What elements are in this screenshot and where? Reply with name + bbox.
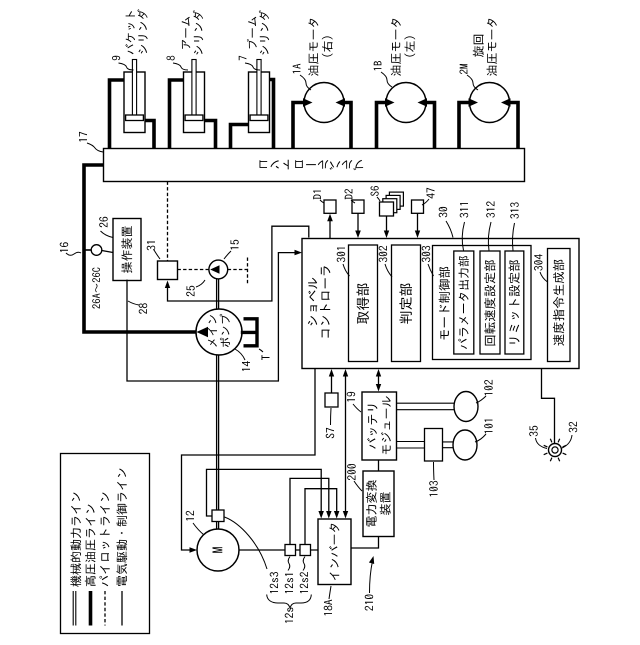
arm cylinder 8 body bbox=[184, 72, 205, 133]
high-pressure line to swing hydraulic motor 2M right port bbox=[510, 103, 519, 149]
leader for 15 bbox=[224, 251, 231, 259]
high-pressure line to bucket cylinder 9 rod side bbox=[145, 121, 154, 149]
leader for 2M bbox=[467, 75, 478, 90]
legend sample electric line bbox=[121, 591, 123, 626]
damper 103 box bbox=[425, 429, 443, 462]
leader for D1 bbox=[320, 200, 324, 203]
lever grip 102 bbox=[454, 392, 478, 422]
arrow into regulator 31 bbox=[165, 281, 170, 289]
arrow into travel hydraulic motor 1B (left) right port bbox=[418, 98, 428, 107]
high-pressure line to arm cylinder 8 head side bbox=[170, 80, 184, 149]
inverter label bbox=[329, 524, 339, 580]
leader for 25 bbox=[196, 280, 205, 287]
mechanical link battery to lever 102 bbox=[397, 403, 455, 410]
label 35 bbox=[529, 426, 538, 437]
inverter 18A box bbox=[318, 519, 351, 585]
leader for 101 bbox=[475, 434, 486, 442]
travel hydraulic motor 1A (right) circle bbox=[304, 83, 344, 123]
travel hydraulic motor 1B (left) circle bbox=[386, 83, 426, 123]
mechanical link battery to damper 103 bbox=[397, 442, 425, 449]
mechanical link damper to lever 101 bbox=[443, 442, 454, 448]
wire power converter to inverter bbox=[351, 537, 379, 549]
light 35 inner circle bbox=[552, 447, 558, 453]
sensor S6 stack box 4 bbox=[389, 192, 403, 206]
parameter output unit 311 box bbox=[454, 251, 474, 354]
label 16 bbox=[60, 242, 69, 252]
leader for 17 bbox=[87, 143, 103, 152]
label 47 bbox=[427, 188, 435, 199]
battery module label line1 bbox=[367, 405, 377, 449]
label 304 bbox=[534, 254, 543, 271]
leader for 1A bbox=[300, 75, 311, 90]
arrow from S6 into controller bbox=[384, 231, 389, 239]
arrow into swing hydraulic motor 2M left port bbox=[469, 98, 479, 107]
leader for 12 bbox=[193, 523, 204, 535]
leader for 12s2 bbox=[303, 557, 305, 571]
arrow 12s1 wire into inverter bbox=[326, 511, 332, 519]
arrow into travel hydraulic motor 1A (right) left port bbox=[303, 98, 313, 107]
high-pressure line to swing hydraulic motor 2M left port bbox=[459, 103, 470, 149]
arm cylinder 8 piston bbox=[185, 115, 203, 121]
electric motor 12 circle bbox=[197, 529, 239, 571]
leader for 47 bbox=[422, 199, 429, 205]
wire sensor 12s2 to inverter bbox=[305, 489, 337, 545]
leader for 301 bbox=[343, 264, 350, 276]
mode control unit label bbox=[439, 267, 450, 340]
leader for 303 bbox=[428, 264, 434, 276]
acquisition unit label bbox=[356, 284, 369, 324]
label 210 bbox=[365, 595, 374, 611]
leader for S6 bbox=[377, 197, 380, 201]
label 12s2 bbox=[300, 572, 309, 593]
arrow into controller (wire 28) bbox=[295, 250, 303, 256]
high-pressure line to boom cylinder 7 rod side bbox=[270, 80, 274, 149]
label 312 bbox=[486, 201, 495, 217]
label 303 bbox=[422, 246, 431, 262]
leader for 12s1 bbox=[288, 557, 290, 571]
arrow 12s3 wire into inverter bbox=[318, 511, 324, 519]
determination unit 302 box bbox=[392, 245, 421, 362]
arrow into travel hydraulic motor 1B (left) left port bbox=[385, 98, 395, 107]
legend sample mechanical line bbox=[73, 591, 76, 626]
mechanical shaft sensor to motor bbox=[217, 522, 219, 530]
main pump port triangle bbox=[197, 327, 209, 337]
arm cylinder 8 name line1 bbox=[182, 17, 191, 49]
boom cylinder 7 piston bbox=[250, 115, 268, 121]
boom cylinder 7 name line1 bbox=[247, 17, 257, 49]
legend sample pilot line bbox=[104, 591, 106, 626]
bucket cylinder 9 rod bbox=[132, 60, 136, 116]
pilot pump triangle bbox=[210, 265, 219, 273]
legend high pressure hydraulic line bbox=[85, 505, 96, 587]
pilot line (valve to regulator 31) bbox=[167, 182, 169, 262]
leader for 103 bbox=[433, 462, 436, 480]
leader curve for 12s3 bbox=[225, 517, 268, 569]
arrow into controller (inverter wire) bbox=[343, 369, 348, 377]
label 301 bbox=[337, 248, 346, 263]
sensor S6 stack box 3 bbox=[386, 195, 400, 209]
operating device 26 box bbox=[113, 219, 141, 281]
wire 28 operating device to controller bbox=[127, 253, 298, 381]
boom cylinder 7 name line2 bbox=[259, 10, 269, 54]
sensor S6 stack box 2 bbox=[383, 199, 397, 213]
high-pressure line to travel hydraulic motor 1B (left) right port bbox=[426, 103, 435, 149]
leader for 311 bbox=[462, 222, 464, 251]
input device D2 box bbox=[352, 200, 364, 213]
label 18A bbox=[324, 600, 333, 616]
leader for 312 bbox=[488, 222, 491, 251]
travel hydraulic motor 1A (right) name (右) bbox=[322, 36, 333, 56]
high-pressure line to boom cylinder 7 head side bbox=[231, 125, 249, 149]
swing hydraulic motor 2M circle bbox=[470, 83, 510, 123]
mode control unit 303 box bbox=[433, 246, 532, 360]
leader for 313 bbox=[513, 223, 515, 251]
label 103 bbox=[429, 481, 438, 496]
leader for 18A bbox=[329, 586, 331, 599]
arm cylinder 8 name line2 bbox=[193, 10, 203, 54]
main pump 14 circle bbox=[196, 309, 242, 355]
sensor 12s2 box bbox=[300, 545, 311, 556]
power conversion device 200 box bbox=[363, 471, 394, 537]
main pump label line2 bbox=[220, 314, 230, 347]
arrow into swing hydraulic motor 2M right port bbox=[501, 98, 511, 107]
high-pressure line 16 (pump to valve) bbox=[84, 165, 197, 332]
arrow into motor M bbox=[190, 547, 198, 553]
boom cylinder 7 body bbox=[249, 72, 270, 133]
mechanical shaft pilot pump to main pump bbox=[217, 279, 219, 311]
sensor 12s3 box bbox=[212, 510, 224, 522]
label 26A-26C bbox=[92, 268, 100, 309]
sensor 47 box bbox=[412, 200, 424, 213]
rotation speed setting unit 312 box bbox=[480, 251, 500, 354]
label 15 bbox=[231, 240, 239, 250]
leader for 304 bbox=[540, 272, 548, 282]
boom cylinder 7 rod bbox=[257, 60, 261, 116]
arrow into inverter (controller wire) bbox=[343, 511, 348, 519]
label 200 bbox=[347, 464, 356, 480]
legend electric drive/control line bbox=[116, 469, 127, 586]
leader for 102 bbox=[476, 396, 486, 403]
legend mechanical power line bbox=[70, 493, 81, 587]
arrow from D2 into controller bbox=[355, 231, 361, 239]
bucket cylinder 9 body bbox=[124, 72, 145, 133]
arrow into D1 bbox=[327, 214, 333, 222]
arrow into travel hydraulic motor 1A (right) right port bbox=[336, 98, 346, 107]
determination unit label bbox=[399, 284, 412, 324]
speed command generation unit label bbox=[553, 260, 564, 346]
legend box bbox=[61, 454, 150, 634]
label S6 bbox=[371, 186, 379, 196]
leader for D2 bbox=[351, 200, 355, 203]
leader for 210 bbox=[370, 561, 373, 593]
limit setting unit 313 box bbox=[505, 251, 524, 354]
sensor 12s1 box bbox=[285, 545, 296, 556]
label 7 bbox=[239, 56, 247, 60]
label 26 bbox=[99, 217, 108, 228]
label 311 bbox=[460, 203, 469, 218]
arrow 12s2 wire into inverter bbox=[334, 511, 340, 519]
brace for 12s group bbox=[267, 595, 312, 609]
wire 47 to controller bbox=[417, 213, 419, 234]
wire controller to motor M bbox=[182, 369, 316, 551]
label S7 bbox=[326, 428, 335, 438]
bucket cylinder 9 piston bbox=[126, 115, 144, 121]
wire battery to controller bbox=[378, 374, 380, 388]
pilot port circle 26A-26C bbox=[91, 245, 102, 256]
leader for 200 bbox=[354, 481, 362, 491]
label T bbox=[262, 355, 270, 360]
arrow for 210 pointing at DC bus bbox=[369, 556, 374, 564]
label D2 bbox=[345, 189, 353, 199]
controller name line1 bbox=[308, 278, 317, 326]
rotation speed setting unit label bbox=[484, 260, 495, 345]
light 35 rays bbox=[544, 439, 567, 462]
pilot line (pilot pump relief) bbox=[228, 269, 248, 271]
label 30 bbox=[439, 207, 448, 217]
wire D2 to controller bbox=[357, 213, 359, 234]
label 12s3 bbox=[270, 572, 279, 593]
leader for 28 bbox=[128, 301, 139, 305]
leader for 8 bbox=[173, 63, 188, 70]
controller name line2 bbox=[320, 266, 330, 337]
wire controller to D1 bbox=[329, 218, 331, 239]
leader for 30 bbox=[446, 221, 453, 238]
main pump label line1 bbox=[208, 315, 217, 347]
leader for S7 bbox=[330, 408, 333, 425]
label 19 bbox=[347, 392, 356, 402]
wire battery to power converter bbox=[378, 460, 380, 471]
control wire controller to regulator bbox=[168, 226, 309, 301]
bucket cylinder 9 name line2 bbox=[137, 9, 147, 53]
wire S7 to controller bbox=[331, 374, 333, 394]
operating device label bbox=[121, 226, 132, 273]
label 2M bbox=[460, 64, 468, 74]
label 12s bbox=[285, 608, 294, 623]
leader for 32 bbox=[562, 435, 572, 448]
leader for 35 bbox=[536, 438, 548, 449]
label 8 bbox=[167, 56, 175, 61]
legend sample high pressure line bbox=[89, 591, 93, 626]
leader for 16 bbox=[66, 252, 81, 255]
leader for 9 bbox=[119, 63, 134, 70]
high-pressure line to bucket cylinder 9 head side bbox=[110, 80, 125, 149]
wire sensor 12s1 to inverter bbox=[290, 478, 329, 544]
bucket cylinder 9 name line1 bbox=[125, 11, 135, 54]
battery module 19 box bbox=[362, 392, 397, 460]
label 302 bbox=[379, 246, 388, 262]
leader for 302 bbox=[385, 264, 392, 277]
pilot line (regulator 31 to pilot pump 15) bbox=[178, 269, 209, 271]
pilot pump 15 circle bbox=[209, 260, 228, 279]
travel hydraulic motor 1B (left) name 油圧モータ bbox=[391, 19, 402, 76]
regulator 31 box bbox=[158, 261, 178, 280]
arrow into battery (controller) bbox=[376, 384, 381, 392]
label 1A bbox=[293, 64, 301, 73]
swing hydraulic motor 2M name 油圧モータ bbox=[487, 19, 498, 76]
speed command generation unit 304 box bbox=[548, 249, 571, 362]
lever grip 101 bbox=[453, 430, 477, 460]
arrow from 47 into controller bbox=[415, 231, 420, 239]
light 35 outer circle bbox=[549, 444, 562, 457]
swing hydraulic motor 2M name 旋回 bbox=[473, 35, 484, 57]
stub pilot circle to operating device bbox=[102, 251, 113, 253]
excavator controller 30 box bbox=[302, 239, 579, 369]
leader for 19 bbox=[353, 404, 361, 412]
wire sensor 12s3 to inverter bbox=[207, 469, 322, 516]
legend pilot line bbox=[100, 493, 110, 587]
power conversion label line2 bbox=[380, 492, 391, 515]
leader for 7 bbox=[245, 63, 260, 70]
label 32 bbox=[569, 422, 578, 433]
motor letter M bbox=[213, 547, 223, 553]
leader for 26 bbox=[101, 231, 114, 238]
tank symbol T bbox=[241, 317, 257, 347]
leader for 31 bbox=[154, 250, 160, 259]
label 12 bbox=[186, 511, 194, 521]
wire controller to inverter bbox=[345, 374, 347, 515]
control valve 17 (body) bbox=[104, 149, 525, 182]
arm cylinder 8 rod bbox=[192, 60, 196, 116]
label 101 bbox=[484, 420, 493, 434]
sensor S6 front box bbox=[380, 202, 394, 216]
power conversion label line1 bbox=[366, 480, 377, 526]
leader for 1B bbox=[381, 72, 392, 87]
label 12s1 bbox=[285, 574, 294, 593]
sensor S7 box bbox=[325, 393, 338, 407]
label D1 bbox=[313, 191, 321, 200]
acquisition unit 301 box bbox=[349, 245, 378, 362]
wire controller to light bbox=[542, 369, 555, 444]
high-pressure line to travel hydraulic motor 1A (right) left port bbox=[293, 103, 304, 149]
high-pressure line to travel hydraulic motor 1B (left) left port bbox=[377, 103, 387, 149]
label 9 bbox=[112, 56, 120, 60]
label 14 bbox=[242, 361, 250, 371]
arrow into controller (battery) bbox=[376, 369, 381, 377]
pilot line relief tee bbox=[247, 258, 249, 285]
mechanical shaft main pump to motor sensor bbox=[217, 355, 219, 511]
arrow from S7 into controller bbox=[329, 369, 334, 377]
travel hydraulic motor 1A (right) name 油圧モータ bbox=[308, 19, 319, 76]
wire motor to inverter bbox=[239, 549, 318, 551]
high-pressure line to arm cylinder 8 rod side bbox=[205, 121, 216, 149]
label 25 bbox=[186, 286, 195, 297]
battery module label line2 bbox=[381, 396, 391, 454]
label 313 bbox=[510, 202, 519, 218]
parameter output unit label bbox=[458, 256, 469, 349]
stub thick line to pilot circle bbox=[85, 249, 91, 251]
label 17 bbox=[79, 132, 87, 142]
label 1B bbox=[374, 61, 382, 70]
control valve label bbox=[260, 160, 364, 171]
leader for 14 bbox=[235, 349, 245, 360]
high-pressure line to travel hydraulic motor 1A (right) right port bbox=[344, 103, 351, 149]
display D1 box bbox=[324, 200, 336, 213]
label 102 bbox=[484, 380, 493, 395]
label 28 bbox=[139, 303, 148, 314]
wire S6 to controller bbox=[386, 216, 388, 234]
travel hydraulic motor 1B (left) name (左) bbox=[404, 36, 415, 56]
label 31 bbox=[147, 242, 156, 251]
limit setting unit label bbox=[509, 260, 520, 343]
leader for T bbox=[259, 349, 263, 352]
